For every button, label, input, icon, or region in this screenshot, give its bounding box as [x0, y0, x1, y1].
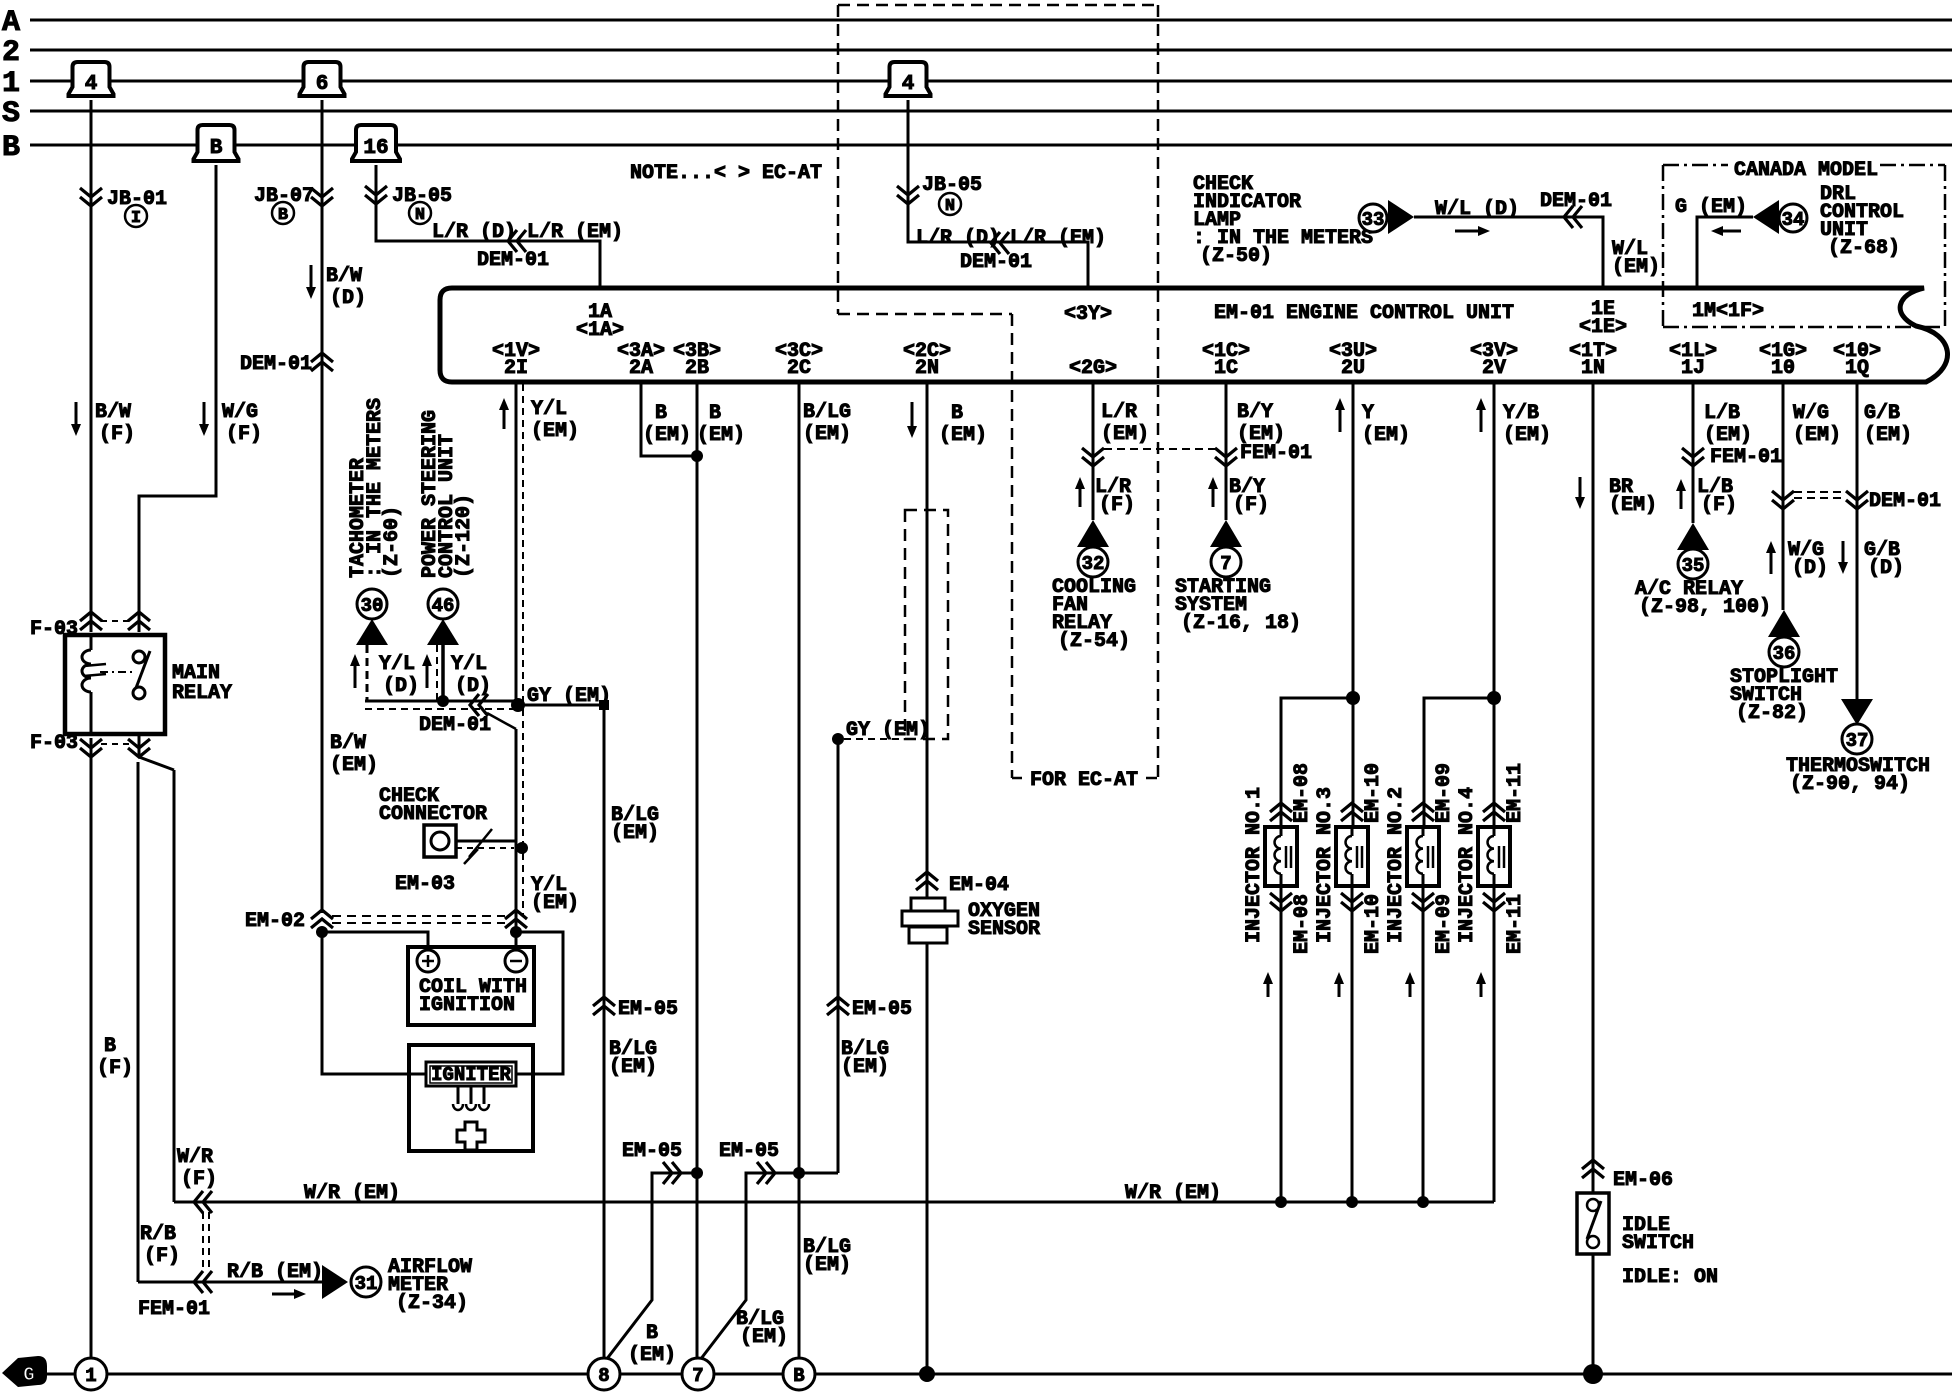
- svg-text:(EM): (EM): [740, 1326, 788, 1349]
- svg-text:F-03: F-03: [30, 732, 78, 755]
- svg-text:37: 37: [1846, 730, 1869, 752]
- svg-text:(EM): (EM): [1864, 424, 1912, 447]
- svg-text:(F): (F): [1099, 494, 1135, 517]
- svg-text:34: 34: [1782, 209, 1805, 231]
- svg-text:SENSOR: SENSOR: [968, 918, 1040, 941]
- svg-text:EM-02: EM-02: [245, 910, 305, 933]
- wire Y/L (EM) from ECU pin 2I: [499, 384, 579, 709]
- ECU pin 10 label: [1759, 340, 1807, 380]
- svg-text:W/L (D): W/L (D): [1435, 198, 1519, 221]
- svg-text:<1A>: <1A>: [576, 319, 624, 342]
- svg-text:36: 36: [1773, 643, 1796, 665]
- svg-text:B/LG: B/LG: [803, 401, 851, 424]
- svg-text:EM-03: EM-03: [395, 873, 455, 896]
- idle switch EM-06: [1577, 1193, 1718, 1374]
- A/C relay label: [1635, 578, 1771, 619]
- svg-text:EM-01 ENGINE CONTROL UNIT: EM-01 ENGINE CONTROL UNIT: [1214, 302, 1514, 325]
- svg-text:GY (EM): GY (EM): [846, 719, 930, 742]
- svg-text:B: B: [210, 137, 223, 160]
- svg-text:(Z-34): (Z-34): [396, 1292, 468, 1315]
- wire Y/L (D) from power steering arrow: [422, 645, 491, 701]
- EM-01 engine control unit box U1: [440, 288, 1948, 382]
- svg-text:B: B: [951, 402, 963, 425]
- harness label F-03 below main relay: [30, 732, 150, 757]
- connector arrow 32 to cooling fan relay: [1077, 520, 1109, 577]
- svg-text:EM-09: EM-09: [1433, 763, 1456, 823]
- EM-05 stub to ground circle 7: [700, 1140, 798, 1360]
- ground circle B: [783, 1358, 815, 1390]
- svg-text:(Z-82): (Z-82): [1736, 702, 1808, 725]
- svg-text:B: B: [793, 1365, 804, 1387]
- svg-text:B: B: [646, 1322, 658, 1345]
- wire Y/B (EM) from ECU pin 2V to injectors: [1424, 384, 1551, 827]
- junction block connector 4 on bus 1: [69, 62, 114, 96]
- svg-text:B: B: [709, 402, 721, 425]
- svg-text:(EM): (EM): [841, 1056, 889, 1079]
- junction block connector 4 on bus 1 (EC-AT): [886, 62, 931, 96]
- svg-text:(EM): (EM): [628, 1344, 676, 1367]
- ECU pin 3Y label: [1064, 303, 1112, 326]
- svg-text:IGNITER: IGNITER: [431, 1064, 511, 1086]
- svg-text:EM-10: EM-10: [1362, 894, 1385, 954]
- ground bus: [46, 1373, 1952, 1376]
- svg-text:(F): (F): [226, 423, 262, 446]
- svg-text:2B: 2B: [685, 357, 709, 380]
- wire B (EM) from ECU pin 2A: [641, 384, 697, 456]
- svg-text:(EM): (EM): [1793, 424, 1841, 447]
- svg-text:1: 1: [85, 1365, 96, 1387]
- check connector EM-03: [379, 785, 528, 896]
- ECU pin 1N label: [1569, 340, 1617, 380]
- connector arrow 36 to stoplight switch: [1768, 610, 1800, 667]
- svg-text:EM-05: EM-05: [719, 1140, 779, 1163]
- svg-text:L/R (EM): L/R (EM): [527, 221, 623, 244]
- svg-text:IDLE: ON: IDLE: ON: [1622, 1266, 1718, 1289]
- DEM-01 harness boundary at 10 1Q wires: [1794, 490, 1941, 513]
- ground circle 7: [682, 1358, 714, 1390]
- connector arrow 35 to A/C relay: [1677, 523, 1709, 579]
- svg-text:7: 7: [692, 1365, 703, 1387]
- svg-text:SWITCH: SWITCH: [1622, 1232, 1694, 1255]
- svg-text:CONNECTOR: CONNECTOR: [379, 803, 487, 826]
- svg-text:(Z-98, 100): (Z-98, 100): [1639, 596, 1771, 619]
- ground junction dot idle switch: [1583, 1364, 1603, 1384]
- wire Y/L (EM) down to check connector and coil: [516, 709, 579, 932]
- svg-text:B/W: B/W: [95, 401, 131, 424]
- svg-text:EM-05: EM-05: [852, 998, 912, 1021]
- wire BR (EM) from ECU pin 1N to idle switch: [1575, 384, 1673, 1193]
- svg-text:(F): (F): [144, 1245, 180, 1268]
- wire W/G from ECU pin 10 to stoplight switch: [1766, 384, 1841, 610]
- svg-text:EM-11: EM-11: [1504, 763, 1527, 823]
- svg-text:46: 46: [432, 595, 455, 617]
- svg-text:2C: 2C: [787, 357, 811, 380]
- svg-text:IGNITION: IGNITION: [419, 994, 515, 1017]
- svg-text:(EM): (EM): [697, 424, 745, 447]
- svg-text:FEM-01: FEM-01: [1710, 446, 1782, 469]
- svg-text:1Q: 1Q: [1845, 357, 1869, 380]
- wire L/B from ECU pin 1J to A/C relay: [1676, 384, 1782, 523]
- svg-text:1N: 1N: [1581, 357, 1605, 380]
- svg-text:35: 35: [1682, 555, 1705, 577]
- svg-text:DEM-01: DEM-01: [240, 353, 312, 376]
- wire L/R from connector 4 (JB-05) to ECU pin 3Y: [897, 100, 1106, 290]
- svg-text:(EM): (EM): [803, 423, 851, 446]
- ECU pin 1A label: [576, 301, 624, 342]
- bus line 2: [2, 36, 1952, 70]
- svg-text:(D): (D): [1868, 557, 1904, 580]
- connector arrow 31 to airflow meter: [322, 1265, 381, 1299]
- ECU pin 2C label: [775, 340, 823, 380]
- svg-text:7: 7: [1220, 553, 1231, 575]
- svg-text:(Z-54): (Z-54): [1058, 630, 1130, 653]
- airflow meter label: [388, 1256, 472, 1315]
- svg-text:R/B (EM): R/B (EM): [227, 1261, 323, 1284]
- svg-text:(Z-60): (Z-60): [381, 506, 404, 578]
- bus line A: [2, 6, 1952, 40]
- svg-text:6: 6: [316, 73, 329, 96]
- svg-text:INJECTOR NO.3: INJECTOR NO.3: [1314, 787, 1337, 943]
- svg-text:DEM-01: DEM-01: [419, 714, 491, 737]
- ECU pin 1C label: [1202, 340, 1250, 380]
- wire B/LG (EM) from ECU pin 2C to ground circle B: [793, 384, 851, 1359]
- svg-text:2U: 2U: [1341, 357, 1365, 380]
- svg-text:B: B: [2, 131, 20, 165]
- svg-text:G: G: [23, 1364, 34, 1386]
- svg-text:EM-09: EM-09: [1433, 894, 1456, 954]
- svg-text:W/R (EM): W/R (EM): [1125, 1182, 1221, 1205]
- svg-text:EM-05: EM-05: [618, 998, 678, 1021]
- svg-text:EM-08: EM-08: [1291, 894, 1314, 954]
- svg-text:DEM-01: DEM-01: [1869, 490, 1941, 513]
- svg-text:(F): (F): [181, 1168, 217, 1191]
- svg-text:L/R (D): L/R (D): [916, 227, 1000, 250]
- connector arrow 7 to starting system: [1210, 520, 1242, 577]
- svg-text:(Z-68): (Z-68): [1828, 237, 1900, 260]
- wire B/W from connector 6 to ignition coil positive: [240, 100, 378, 913]
- svg-text:10: 10: [1771, 357, 1795, 380]
- svg-text:Y/L: Y/L: [379, 653, 415, 676]
- wire Y (EM) from ECU pin 2U to injectors: [1281, 384, 1410, 827]
- connector arrow 33 from check indicator lamp: [1359, 200, 1414, 234]
- wire B (EM) from ECU pin 2N to oxygen sensor: [907, 384, 1009, 899]
- main relay K1: [65, 635, 232, 734]
- svg-text:<3Y>: <3Y>: [1064, 303, 1112, 326]
- svg-text:W/G: W/G: [1793, 402, 1829, 425]
- svg-text:(Z-16, 18): (Z-16, 18): [1181, 612, 1301, 635]
- power steering control unit label (rotated): [419, 410, 476, 578]
- wire GY (EM) branch with dashed EC-AT link: [798, 719, 930, 1173]
- svg-text:(EM): (EM): [330, 754, 378, 777]
- svg-text:31: 31: [355, 1273, 378, 1295]
- svg-text:(EM): (EM): [803, 1254, 851, 1277]
- connector arrow 37 to thermoswitch: [1841, 699, 1873, 754]
- svg-text:(EM): (EM): [939, 424, 987, 447]
- svg-text:FEM-01: FEM-01: [138, 1298, 210, 1321]
- wire B/LG (EM) from GY junction to ground circle 8: [593, 705, 678, 1359]
- svg-text:(D): (D): [1792, 557, 1828, 580]
- svg-text:INJECTOR NO.2: INJECTOR NO.2: [1385, 787, 1408, 943]
- svg-text:EM-04: EM-04: [949, 874, 1009, 897]
- connector arrow 30 to tachometer: [356, 589, 388, 645]
- svg-text:2N: 2N: [915, 357, 939, 380]
- svg-text:(F): (F): [1701, 494, 1737, 517]
- bus line S: [2, 97, 1952, 131]
- wire GY (EM) from junction: [518, 685, 611, 710]
- svg-text:INJECTOR NO.1: INJECTOR NO.1: [1243, 787, 1266, 943]
- junction block connector 16 on bus B: [352, 125, 400, 161]
- svg-text:2: 2: [2, 36, 20, 70]
- svg-text:EM-06: EM-06: [1613, 1169, 1673, 1192]
- svg-text:4: 4: [902, 73, 915, 96]
- DRL control unit label: [1820, 183, 1904, 260]
- svg-text:(F): (F): [99, 423, 135, 446]
- svg-text:L/R (EM): L/R (EM): [1010, 227, 1106, 250]
- svg-text:33: 33: [1362, 209, 1385, 231]
- connector arrow 34 to DRL control unit: [1753, 200, 1807, 234]
- svg-text:4: 4: [85, 73, 98, 96]
- svg-text:(EM): (EM): [1704, 424, 1752, 447]
- wire W/G from connector B to main relay switch: [139, 165, 262, 632]
- starting system label: [1175, 576, 1301, 635]
- svg-text:(F): (F): [97, 1057, 133, 1080]
- svg-text:(D): (D): [383, 675, 419, 698]
- wire B/W from connector 4 through main relay coil to ground circle 1: [71, 100, 167, 1359]
- svg-text:30: 30: [361, 595, 384, 617]
- check indicator lamp label: [1193, 173, 1373, 268]
- injector NO.3 (EM-10): [1314, 763, 1385, 1202]
- svg-text:(EM): (EM): [611, 822, 659, 845]
- ECU pin 2B label: [673, 340, 721, 380]
- wire Y/L (D) from tachometer arrow: [350, 645, 419, 701]
- ECU pin 2I label: [492, 340, 540, 380]
- svg-text:1J: 1J: [1681, 357, 1705, 380]
- thermoswitch label: [1786, 755, 1930, 796]
- svg-text:B/W: B/W: [326, 265, 362, 288]
- svg-text:(EM): (EM): [531, 420, 579, 443]
- svg-text:CANADA MODEL: CANADA MODEL: [1734, 159, 1878, 182]
- wire B/Y from ECU pin 1C to starting system: [1208, 384, 1285, 520]
- ground circle 8: [588, 1358, 620, 1390]
- svg-text:(D): (D): [330, 287, 366, 310]
- cooling fan relay label: [1052, 576, 1136, 653]
- wire G/B from ECU pin 1Q to thermoswitch: [1838, 384, 1912, 699]
- injector NO.1 (EM-08): [1243, 763, 1314, 1202]
- wire L/R from connector 16 (JB-05) to ECU pin 1A: [365, 165, 623, 290]
- wire L/R from ECU pin 2G to cooling fan relay: [1075, 384, 1149, 520]
- svg-text:Y: Y: [1362, 402, 1374, 425]
- ECU label EM-01 ENGINE CONTROL UNIT: [1214, 302, 1514, 325]
- svg-text:1M<1F>: 1M<1F>: [1692, 300, 1764, 323]
- svg-text:<1E>: <1E>: [1579, 316, 1627, 339]
- Canada model dash-dot boundary box: [1663, 159, 1945, 327]
- svg-text:G (EM): G (EM): [1675, 196, 1747, 219]
- coil with ignition: [316, 926, 534, 1025]
- svg-text:N: N: [415, 206, 425, 225]
- svg-text:2I: 2I: [504, 357, 528, 380]
- ECU pin 1Q label: [1833, 340, 1881, 380]
- svg-text:32: 32: [1082, 553, 1105, 575]
- svg-text:B: B: [278, 206, 288, 225]
- svg-text:EM-10: EM-10: [1362, 763, 1385, 823]
- svg-text:N: N: [945, 197, 955, 216]
- wire R/B (F) from main relay to airflow meter: [138, 762, 324, 1299]
- svg-text:Y/L: Y/L: [531, 398, 567, 421]
- FEM-01 harness boundary at 2G 1C wires: [1104, 442, 1312, 465]
- svg-text:1C: 1C: [1214, 357, 1238, 380]
- svg-text:(F): (F): [1233, 494, 1269, 517]
- svg-text:(EM): (EM): [1503, 424, 1551, 447]
- svg-text:<2G>: <2G>: [1069, 357, 1117, 380]
- svg-text:L/B: L/B: [1704, 402, 1740, 425]
- FEM-01 harness boundary at W/R R/B wires: [138, 1212, 210, 1321]
- igniter: [322, 932, 563, 1151]
- svg-text:B: B: [104, 1035, 116, 1058]
- svg-text:Y/B: Y/B: [1503, 402, 1539, 425]
- svg-text:B: B: [655, 402, 667, 425]
- svg-text:(EM): (EM): [609, 1056, 657, 1079]
- svg-text:F-03: F-03: [30, 618, 78, 641]
- ECU pin 2V label: [1470, 340, 1518, 380]
- svg-text:(EM): (EM): [643, 424, 691, 447]
- svg-text:R/B: R/B: [140, 1223, 176, 1246]
- ECU pin 2U label: [1329, 340, 1377, 380]
- svg-text:G/B: G/B: [1864, 402, 1900, 425]
- svg-text:1: 1: [2, 67, 20, 101]
- svg-text:EM-11: EM-11: [1504, 894, 1527, 954]
- harness label F-03 above main relay: [30, 612, 150, 641]
- wire W/R (EM) horizontal to injectors: [174, 1182, 1494, 1205]
- injector ground junction dots on W/R line: [1275, 1196, 1429, 1208]
- svg-text:I: I: [131, 209, 141, 228]
- svg-text:2A: 2A: [629, 357, 653, 380]
- junction block connector B on bus B: [194, 125, 239, 161]
- EM-05 stub to ground circle 8: [606, 1140, 699, 1367]
- svg-text:(EM): (EM): [1101, 423, 1149, 446]
- svg-text:(EM): (EM): [531, 892, 579, 915]
- svg-text:EM-08: EM-08: [1291, 763, 1314, 823]
- svg-text:W/R (EM): W/R (EM): [304, 1182, 400, 1205]
- svg-text:B/W: B/W: [330, 732, 366, 755]
- svg-text:DEM-01: DEM-01: [477, 249, 549, 272]
- svg-text:DEM-01: DEM-01: [1540, 190, 1612, 213]
- wire G (EM) to ECU pin 1M: [1675, 196, 1753, 290]
- svg-text:(EM): (EM): [1612, 256, 1660, 279]
- svg-text:Y/L: Y/L: [451, 653, 487, 676]
- svg-text:S: S: [2, 97, 20, 131]
- svg-text:8: 8: [598, 1365, 609, 1387]
- ECU pin 1J label: [1669, 340, 1717, 380]
- svg-text:GY (EM): GY (EM): [527, 685, 611, 708]
- svg-text:L/R (D): L/R (D): [432, 221, 516, 244]
- svg-text:(Z-120): (Z-120): [453, 494, 476, 578]
- ECU pin 2N label: [903, 340, 951, 380]
- wire W/R (F) from main relay to W/R (EM) line: [139, 734, 217, 1213]
- svg-text:W/G: W/G: [222, 401, 258, 424]
- svg-text:(EM): (EM): [1237, 423, 1285, 446]
- svg-text:RELAY: RELAY: [172, 682, 232, 705]
- ground symbol G: [2, 1356, 47, 1387]
- svg-text:W/R: W/R: [177, 1146, 213, 1169]
- svg-text:DEM-01: DEM-01: [960, 251, 1032, 274]
- svg-text:EM-05: EM-05: [622, 1140, 682, 1163]
- ECU pin 1E label: [1579, 298, 1627, 339]
- wire W/L to ECU pin 1E: [1414, 190, 1660, 290]
- svg-text:(Z-90, 94): (Z-90, 94): [1790, 773, 1910, 796]
- svg-text:2V: 2V: [1482, 357, 1506, 380]
- svg-text:FOR EC-AT: FOR EC-AT: [1030, 769, 1138, 792]
- ground junction dot oxygen sensor: [919, 1366, 935, 1382]
- svg-text:NOTE...< > EC-AT: NOTE...< > EC-AT: [630, 162, 822, 185]
- stoplight switch label: [1730, 666, 1838, 725]
- bus line B: [2, 131, 1952, 165]
- oxygen sensor: [902, 898, 1040, 1374]
- svg-text:(Z-50): (Z-50): [1200, 245, 1272, 268]
- ECU pin 1M label: [1692, 300, 1764, 323]
- injector NO.4 (EM-11): [1456, 763, 1527, 1202]
- EC-AT dashed box around oxygen sensor wire: [905, 510, 948, 739]
- svg-text:A: A: [2, 6, 20, 40]
- ground circle 1: [75, 1358, 107, 1390]
- svg-text:(EM): (EM): [1362, 424, 1410, 447]
- DEM-01 junction of Y/L wires: [365, 694, 525, 737]
- ECU pin 2A label: [617, 340, 665, 380]
- bus line 1: [2, 67, 1952, 101]
- svg-text:B/Y: B/Y: [1237, 401, 1273, 424]
- svg-text:L/R: L/R: [1101, 401, 1137, 424]
- svg-text:INJECTOR NO.4: INJECTOR NO.4: [1456, 787, 1479, 943]
- connector arrow 46 to power steering control unit: [427, 589, 459, 645]
- EC-AT variant dashed boundary box: [838, 5, 1158, 792]
- ECU pin 2G label: [1069, 357, 1117, 380]
- tachometer label (rotated): [347, 398, 404, 578]
- wire B (EM) from ECU pin 2B to ground circle 7: [691, 384, 745, 1359]
- svg-text:(EM): (EM): [1609, 494, 1657, 517]
- EM-02 harness boundary: [245, 910, 527, 933]
- injector NO.2 (EM-09): [1385, 763, 1456, 1202]
- svg-text:16: 16: [363, 137, 388, 160]
- note text: [630, 162, 822, 185]
- junction block connector 6 on bus 1: [300, 62, 345, 96]
